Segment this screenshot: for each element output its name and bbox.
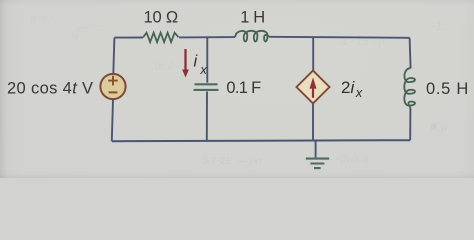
dependent current source 2ix (diamond)	[297, 71, 330, 104]
svg-text:b·√·³: b·√·³	[30, 13, 53, 25]
current arrow ix (red, downward)	[184, 49, 186, 71]
voltage source Vs 20cos4t	[100, 74, 125, 99]
arrow inside diamond (up)	[312, 87, 314, 98]
plus sign	[108, 76, 118, 86]
wire: capacitor branch upper	[206, 37, 208, 82]
wire: right branch upper	[410, 38, 411, 68]
svg-text:0.1 F: 0.1 F	[226, 79, 261, 97]
resistor R 10 ohm zigzag	[143, 33, 179, 42]
svg-text:i: i	[194, 52, 199, 70]
svg-text:1 H: 1 H	[240, 9, 264, 27]
svg-text:20 cos 4t V: 20 cos 4t V	[7, 79, 93, 97]
svg-text:x: x	[355, 85, 363, 100]
svg-text:0.5 H: 0.5 H	[426, 80, 469, 98]
capacitor C 0.1F plates	[194, 84, 219, 90]
wire: top rail right segment	[269, 37, 410, 38]
wire: left branch upper (top corner down to source)	[113, 38, 114, 74]
svg-text:x: x	[199, 62, 207, 77]
faint page bleed-through marks	[30, 13, 448, 167]
svg-text:1e.√−−: 1e.√−−	[152, 61, 186, 73]
wire: top rail left segment (corner to resistor)	[114, 37, 143, 39]
svg-text:■ μ: ■ μ	[430, 119, 448, 133]
svg-text:−1↓: −1↓	[430, 21, 448, 33]
ground stub	[315, 141, 317, 158]
wire: capacitor branch lower	[206, 92, 208, 142]
wire: left branch lower	[112, 99, 113, 141]
ground bars	[306, 159, 329, 169]
minus sign	[109, 91, 118, 93]
svg-text:√¯¯¯: √¯¯¯	[71, 24, 106, 44]
svg-text:0·7⋅21‘ — √•↑: 0·7⋅21‘ — √•↑	[202, 155, 263, 167]
svg-text:•(t)√s·ө: •(t)√s·ө	[336, 153, 369, 165]
svg-text:2i: 2i	[341, 78, 355, 97]
wire: top rail between resistor and inductor	[179, 36, 235, 38]
inductor L1 1H coil	[235, 31, 269, 42]
wire: right branch lower	[409, 108, 411, 141]
svg-text:10 Ω: 10 Ω	[144, 9, 178, 27]
wire: bottom rail	[112, 140, 410, 141]
wire: dependent source branch upper	[312, 38, 314, 71]
wire: dependent source branch lower	[312, 103, 314, 140]
inductor L2 0.5H vertical coil	[404, 68, 415, 107]
